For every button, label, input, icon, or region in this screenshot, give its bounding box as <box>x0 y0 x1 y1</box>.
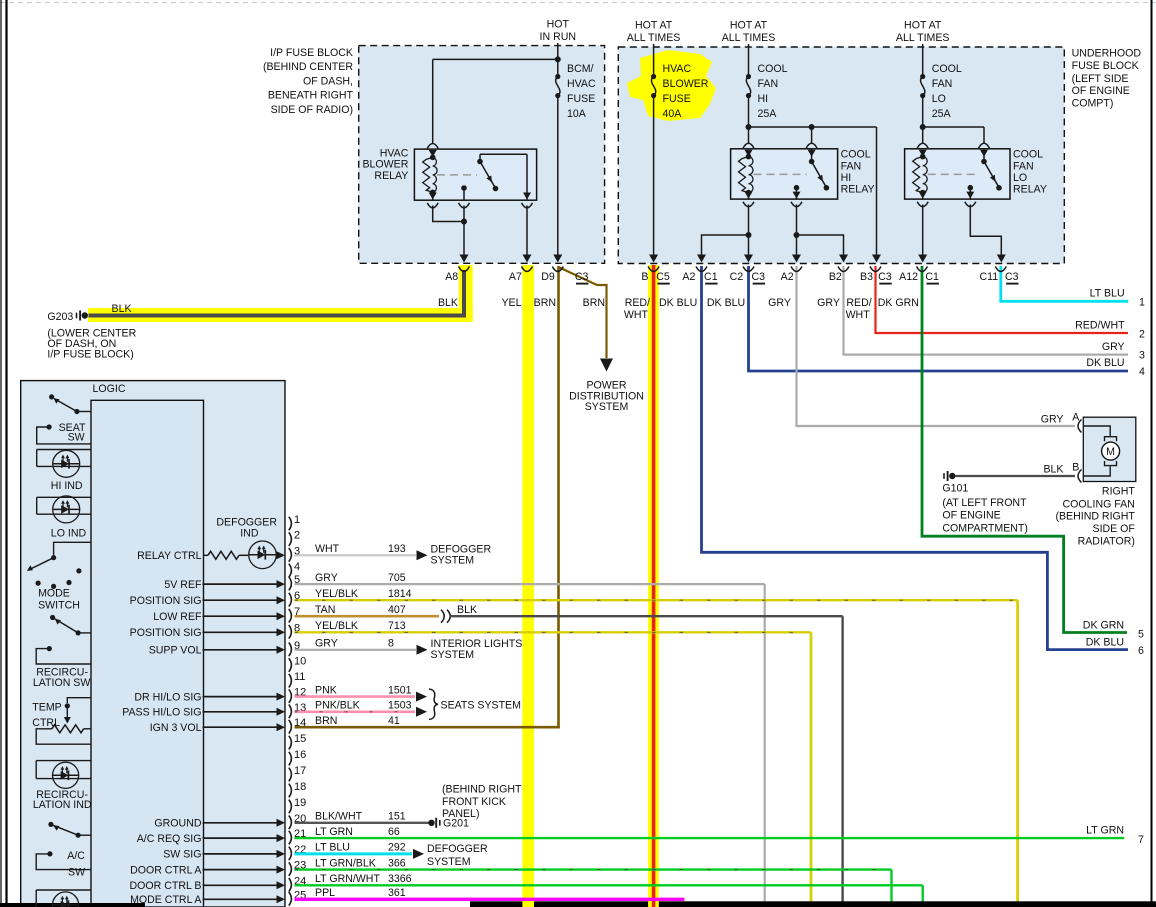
svg-text:C3: C3 <box>751 271 765 283</box>
svg-text:7: 7 <box>1138 834 1144 846</box>
svg-text:BRN: BRN <box>583 297 605 309</box>
svg-text:GRY: GRY <box>315 572 338 584</box>
svg-text:POSITION SIG: POSITION SIG <box>130 627 202 639</box>
svg-text:BLK/WHT: BLK/WHT <box>315 811 363 823</box>
svg-text:66: 66 <box>388 826 400 838</box>
svg-text:LATION SW: LATION SW <box>33 677 90 689</box>
svg-text:FUSE BLOCK: FUSE BLOCK <box>1072 60 1139 72</box>
svg-text:DK GRN: DK GRN <box>878 297 919 309</box>
svg-text:17: 17 <box>294 765 306 777</box>
svg-text:SYSTEM: SYSTEM <box>585 401 629 413</box>
svg-text:SEATS SYSTEM: SEATS SYSTEM <box>441 699 521 711</box>
svg-text:G203: G203 <box>47 311 73 323</box>
svg-text:YEL/BLK: YEL/BLK <box>315 588 358 600</box>
svg-text:LO: LO <box>1013 172 1027 184</box>
svg-text:3366: 3366 <box>388 873 412 885</box>
svg-text:LOGIC: LOGIC <box>93 383 126 395</box>
svg-text:(BEHIND RIGHT: (BEHIND RIGHT <box>1055 511 1135 523</box>
svg-text:HOT AT: HOT AT <box>730 20 768 32</box>
svg-text:713: 713 <box>388 620 406 632</box>
svg-text:RIGHT: RIGHT <box>1102 486 1135 498</box>
svg-text:16: 16 <box>294 749 306 761</box>
svg-text:705: 705 <box>388 572 406 584</box>
svg-text:LT GRN: LT GRN <box>1086 825 1124 837</box>
svg-text:DK BLU: DK BLU <box>1086 357 1124 369</box>
svg-text:LOW REF: LOW REF <box>153 611 202 623</box>
svg-text:A/C: A/C <box>67 850 85 862</box>
svg-text:8: 8 <box>388 638 394 650</box>
svg-text:TEMP: TEMP <box>32 702 61 714</box>
svg-text:UNDERHOOD: UNDERHOOD <box>1072 48 1142 60</box>
svg-text:B3: B3 <box>860 271 873 283</box>
svg-text:25A: 25A <box>932 108 952 120</box>
svg-text:FAN: FAN <box>841 160 862 172</box>
svg-text:4: 4 <box>1139 366 1145 378</box>
svg-text:PASS HI/LO SIG: PASS HI/LO SIG <box>122 707 201 719</box>
svg-text:RELAY: RELAY <box>374 170 408 182</box>
svg-text:RED/: RED/ <box>625 297 650 309</box>
svg-text:41: 41 <box>388 715 400 727</box>
svg-text:SYSTEM: SYSTEM <box>427 856 471 868</box>
svg-text:COMPT): COMPT) <box>1072 97 1114 109</box>
svg-text:BRN: BRN <box>534 297 556 309</box>
svg-text:OF DASH,: OF DASH, <box>303 76 353 88</box>
svg-text:FAN: FAN <box>932 78 953 90</box>
svg-text:GRY: GRY <box>315 638 338 650</box>
svg-text:BENEATH RIGHT: BENEATH RIGHT <box>268 90 354 102</box>
svg-text:151: 151 <box>388 811 406 823</box>
svg-text:WHT: WHT <box>624 309 649 321</box>
svg-text:(AT LEFT FRONT: (AT LEFT FRONT <box>942 497 1027 509</box>
svg-text:11: 11 <box>294 671 305 683</box>
svg-text:MODE: MODE <box>38 588 70 600</box>
svg-text:PNK: PNK <box>315 684 337 696</box>
svg-text:RELAY: RELAY <box>841 184 875 196</box>
svg-text:FAN: FAN <box>758 78 779 90</box>
svg-text:GRY: GRY <box>1102 341 1125 353</box>
svg-text:OF ENGINE: OF ENGINE <box>942 510 1000 522</box>
svg-text:BLK: BLK <box>1043 464 1063 476</box>
svg-text:RELAY CTRL: RELAY CTRL <box>137 550 201 562</box>
svg-text:TAN: TAN <box>315 604 335 616</box>
svg-text:4: 4 <box>294 561 300 573</box>
svg-text:FUSE: FUSE <box>663 93 691 105</box>
svg-text:5: 5 <box>1138 629 1144 641</box>
svg-text:RELAY: RELAY <box>1013 184 1047 196</box>
svg-text:COMPARTMENT): COMPARTMENT) <box>942 522 1028 534</box>
svg-text:292: 292 <box>388 842 406 854</box>
svg-text:SIDE OF RADIO): SIDE OF RADIO) <box>271 104 353 116</box>
svg-text:FRONT KICK: FRONT KICK <box>442 796 506 808</box>
svg-text:1501: 1501 <box>388 684 412 696</box>
svg-text:361: 361 <box>388 887 406 899</box>
svg-text:BLOWER: BLOWER <box>362 159 408 171</box>
svg-text:COOL: COOL <box>1013 149 1043 161</box>
svg-text:DK BLU: DK BLU <box>707 297 745 309</box>
svg-text:SUPP VOL: SUPP VOL <box>149 645 202 657</box>
svg-text:A/C REQ SIG: A/C REQ SIG <box>137 833 202 845</box>
svg-text:YEL: YEL <box>501 297 521 309</box>
svg-text:DEFOGGER: DEFOGGER <box>427 843 488 855</box>
svg-text:WHT: WHT <box>315 543 340 555</box>
svg-text:SW SIG: SW SIG <box>163 849 201 861</box>
svg-text:HVAC: HVAC <box>567 78 596 90</box>
svg-text:HI: HI <box>758 93 769 105</box>
svg-text:C1: C1 <box>704 271 718 283</box>
svg-text:ALL TIMES: ALL TIMES <box>722 32 776 44</box>
svg-text:D9: D9 <box>541 271 555 283</box>
svg-text:OF ENGINE: OF ENGINE <box>1072 85 1130 97</box>
svg-text:LT GRN/WHT: LT GRN/WHT <box>315 873 380 885</box>
svg-text:10: 10 <box>294 656 306 668</box>
svg-text:M: M <box>1106 446 1115 458</box>
svg-text:40A: 40A <box>663 108 683 120</box>
svg-text:10A: 10A <box>567 108 587 120</box>
svg-text:HI IND: HI IND <box>51 480 83 492</box>
svg-text:COOL: COOL <box>758 63 788 75</box>
svg-text:B2: B2 <box>829 271 842 283</box>
svg-text:SWITCH: SWITCH <box>38 599 80 611</box>
svg-text:IN RUN: IN RUN <box>540 31 577 43</box>
svg-text:HVAC: HVAC <box>380 147 409 159</box>
svg-text:BCM/: BCM/ <box>567 63 594 75</box>
svg-text:IGN 3 VOL: IGN 3 VOL <box>150 722 202 734</box>
svg-text:SW: SW <box>68 432 85 444</box>
svg-text:I/P FUSE BLOCK: I/P FUSE BLOCK <box>270 47 353 59</box>
svg-text:LO IND: LO IND <box>51 528 87 540</box>
svg-text:DK BLU: DK BLU <box>659 297 697 309</box>
svg-text:A: A <box>1072 412 1080 424</box>
svg-text:19: 19 <box>294 797 306 809</box>
svg-text:RED/WHT: RED/WHT <box>1075 319 1125 331</box>
svg-text:PPL: PPL <box>315 887 335 899</box>
svg-text:DOOR CTRL A: DOOR CTRL A <box>130 864 202 876</box>
svg-text:COOL: COOL <box>841 149 871 161</box>
svg-text:ALL TIMES: ALL TIMES <box>896 32 950 44</box>
svg-text:ALL TIMES: ALL TIMES <box>627 32 681 44</box>
svg-text:BLOWER: BLOWER <box>663 78 709 90</box>
svg-text:COOL: COOL <box>932 63 962 75</box>
svg-text:A2: A2 <box>781 271 794 283</box>
svg-text:HOT AT: HOT AT <box>635 20 673 32</box>
svg-text:LT BLU: LT BLU <box>1090 288 1125 300</box>
svg-text:COOLING FAN: COOLING FAN <box>1062 498 1134 510</box>
svg-text:PANEL): PANEL) <box>442 808 479 820</box>
svg-text:25A: 25A <box>758 108 778 120</box>
svg-text:1814: 1814 <box>388 588 412 600</box>
svg-text:FAN: FAN <box>1013 160 1034 172</box>
svg-text:HI: HI <box>841 172 852 184</box>
svg-text:HVAC: HVAC <box>663 63 692 75</box>
svg-text:DEFOGGER: DEFOGGER <box>216 516 277 528</box>
svg-text:C3: C3 <box>878 271 892 283</box>
svg-text:B: B <box>641 271 648 283</box>
svg-text:PNK/BLK: PNK/BLK <box>315 700 360 712</box>
svg-text:HOT AT: HOT AT <box>904 20 942 32</box>
svg-text:3: 3 <box>1139 350 1145 362</box>
svg-text:BLK: BLK <box>438 297 458 309</box>
svg-text:FUSE: FUSE <box>567 93 595 105</box>
svg-text:407: 407 <box>388 604 406 616</box>
svg-text:6: 6 <box>1138 645 1144 657</box>
svg-text:SW: SW <box>68 867 85 879</box>
svg-text:GROUND: GROUND <box>154 818 201 830</box>
svg-text:LO: LO <box>932 93 946 105</box>
svg-text:LT BLU: LT BLU <box>315 842 350 854</box>
svg-text:366: 366 <box>388 857 406 869</box>
svg-text:SYSTEM: SYSTEM <box>431 554 475 566</box>
svg-text:2: 2 <box>1139 329 1145 341</box>
svg-text:1: 1 <box>1139 297 1145 309</box>
svg-text:5V REF: 5V REF <box>164 579 202 591</box>
svg-text:SYSTEM: SYSTEM <box>431 649 475 661</box>
svg-text:GRY: GRY <box>768 297 791 309</box>
svg-text:DR HI/LO SIG: DR HI/LO SIG <box>134 691 201 703</box>
svg-text:RADIATOR): RADIATOR) <box>1078 536 1135 548</box>
svg-text:LT GRN: LT GRN <box>315 826 353 838</box>
svg-text:CTRL: CTRL <box>32 717 60 729</box>
svg-text:GRY: GRY <box>817 297 840 309</box>
svg-text:BLK: BLK <box>457 604 477 616</box>
svg-text:SIDE OF: SIDE OF <box>1093 523 1136 535</box>
svg-text:DK BLU: DK BLU <box>1086 637 1124 649</box>
svg-text:B: B <box>1072 462 1079 474</box>
svg-text:A12: A12 <box>899 271 918 283</box>
svg-text:A8: A8 <box>445 271 458 283</box>
svg-text:(LEFT SIDE: (LEFT SIDE <box>1072 73 1129 85</box>
svg-text:IND: IND <box>240 528 259 540</box>
svg-text:WHT: WHT <box>846 309 871 321</box>
svg-text:BLK: BLK <box>112 303 132 315</box>
svg-text:YEL/BLK: YEL/BLK <box>315 620 358 632</box>
svg-text:HOT: HOT <box>547 19 570 31</box>
svg-text:C11: C11 <box>979 271 998 283</box>
svg-text:(BEHIND CENTER: (BEHIND CENTER <box>263 61 353 73</box>
svg-text:BRN: BRN <box>315 715 337 727</box>
svg-text:A2: A2 <box>682 271 695 283</box>
svg-text:193: 193 <box>388 543 406 555</box>
svg-text:C5: C5 <box>656 271 670 283</box>
svg-text:1503: 1503 <box>388 700 412 712</box>
svg-text:G101: G101 <box>942 483 968 495</box>
svg-text:DOOR CTRL B: DOOR CTRL B <box>129 880 201 892</box>
svg-text:C3: C3 <box>1005 271 1019 283</box>
svg-text:1: 1 <box>294 514 300 526</box>
svg-text:DK GRN: DK GRN <box>1083 620 1124 632</box>
svg-text:LATION IND: LATION IND <box>33 799 92 811</box>
svg-text:A7: A7 <box>509 271 522 283</box>
svg-text:LT GRN/BLK: LT GRN/BLK <box>315 857 376 869</box>
svg-text:2: 2 <box>294 530 300 542</box>
svg-text:C3: C3 <box>575 271 589 283</box>
svg-text:(BEHIND RIGHT: (BEHIND RIGHT <box>442 783 522 795</box>
svg-text:C1: C1 <box>925 271 939 283</box>
svg-text:I/P FUSE BLOCK): I/P FUSE BLOCK) <box>47 349 133 361</box>
svg-text:RED/: RED/ <box>846 297 871 309</box>
svg-text:15: 15 <box>294 733 306 745</box>
svg-text:18: 18 <box>294 781 306 793</box>
svg-text:MODE CTRL A: MODE CTRL A <box>130 894 202 906</box>
svg-text:POSITION SIG: POSITION SIG <box>130 595 202 607</box>
svg-text:GRY: GRY <box>1041 414 1064 426</box>
svg-text:C2: C2 <box>730 271 744 283</box>
